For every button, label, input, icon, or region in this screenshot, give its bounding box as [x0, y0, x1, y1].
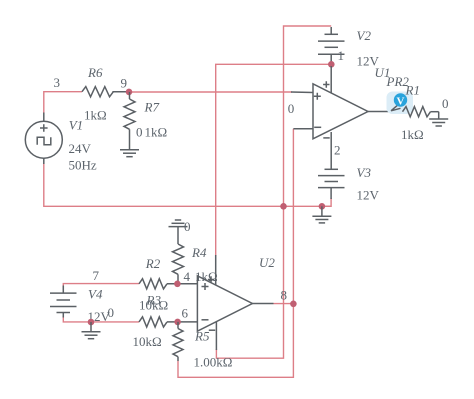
ground above R4 — [169, 220, 188, 244]
svg-text:R3: R3 — [146, 293, 162, 308]
svg-text:50Hz: 50Hz — [69, 158, 97, 173]
op-amp U1 — [293, 66, 404, 169]
source V1 — [25, 113, 62, 165]
junction V4 ground — [88, 319, 95, 326]
svg-text:6: 6 — [182, 306, 189, 321]
svg-text:V4: V4 — [88, 287, 103, 302]
ground below V4 — [82, 322, 101, 339]
op-amp U2 — [197, 255, 273, 350]
resistor R2 — [139, 279, 197, 289]
svg-text:1kΩ: 1kΩ — [84, 108, 107, 123]
junction bus lineA — [280, 203, 287, 210]
resistor R4 — [173, 244, 184, 284]
junction node 9 — [126, 89, 133, 96]
svg-text:0: 0 — [136, 125, 143, 140]
svg-text:1: 1 — [338, 48, 345, 63]
wire V1 top to node3 — [44, 92, 82, 113]
battery V2 — [318, 27, 345, 64]
svg-text:1.00kΩ: 1.00kΩ — [194, 355, 233, 370]
junction node 1 — [328, 61, 335, 68]
svg-text:R2: R2 — [145, 256, 161, 271]
svg-text:V: V — [397, 96, 405, 108]
svg-text:U2: U2 — [259, 255, 275, 270]
resistor R7 — [124, 92, 135, 150]
probe PR2 — [387, 92, 414, 115]
svg-text:2: 2 — [334, 143, 341, 158]
ground right of R1 — [429, 112, 448, 126]
wire bus ground y206 — [44, 163, 331, 206]
svg-text:R5: R5 — [194, 329, 210, 344]
junction node 6 — [174, 319, 181, 326]
resistor R1 — [403, 107, 439, 117]
wire V3 bottom to bus — [322, 198, 331, 206]
junction bus ground — [319, 203, 326, 210]
svg-text:V3: V3 — [357, 165, 372, 180]
svg-text:1kΩ: 1kΩ — [401, 127, 424, 142]
resistor R6 — [82, 87, 129, 97]
svg-text:12V: 12V — [357, 188, 380, 203]
wire line B U1 minus to U2 output — [178, 129, 293, 377]
svg-text:4: 4 — [184, 269, 191, 284]
wire U1 plus stub — [291, 91, 313, 94]
svg-text:V1: V1 — [69, 117, 83, 132]
junction node 4 — [174, 281, 181, 288]
resistor R5 — [173, 322, 183, 361]
svg-text:1kΩ: 1kΩ — [145, 125, 168, 140]
svg-text:0: 0 — [108, 305, 115, 320]
ground below V3 — [312, 206, 331, 223]
svg-text:R6: R6 — [87, 65, 103, 80]
svg-text:9: 9 — [121, 76, 128, 91]
junction node 8 — [290, 301, 297, 308]
svg-text:R7: R7 — [144, 100, 160, 115]
svg-text:0: 0 — [184, 219, 191, 234]
battery V4 — [50, 286, 77, 318]
svg-text:10kΩ: 10kΩ — [133, 334, 162, 349]
svg-text:0: 0 — [288, 101, 295, 116]
battery V3 — [318, 169, 345, 199]
svg-text:8: 8 — [281, 287, 288, 302]
svg-text:7: 7 — [93, 268, 100, 283]
resistor R3 — [139, 317, 197, 327]
wire V4 bottom to R3 — [63, 316, 139, 322]
wire line A lower to U2 vminus — [216, 206, 283, 358]
wire U2 output to node8 — [274, 303, 294, 305]
wire V2 top to line A — [284, 26, 332, 206]
svg-text:3: 3 — [54, 75, 61, 90]
wire node9 to U1 plus input — [129, 91, 292, 93]
svg-text:R4: R4 — [191, 245, 207, 260]
wire V4 top to R2 — [63, 284, 139, 290]
svg-text:24V: 24V — [69, 141, 92, 156]
svg-text:0: 0 — [442, 96, 449, 111]
svg-text:R1: R1 — [405, 83, 420, 98]
wire node1 rail — [216, 64, 332, 256]
svg-text:V2: V2 — [357, 28, 372, 43]
ground below R7 — [120, 150, 139, 157]
